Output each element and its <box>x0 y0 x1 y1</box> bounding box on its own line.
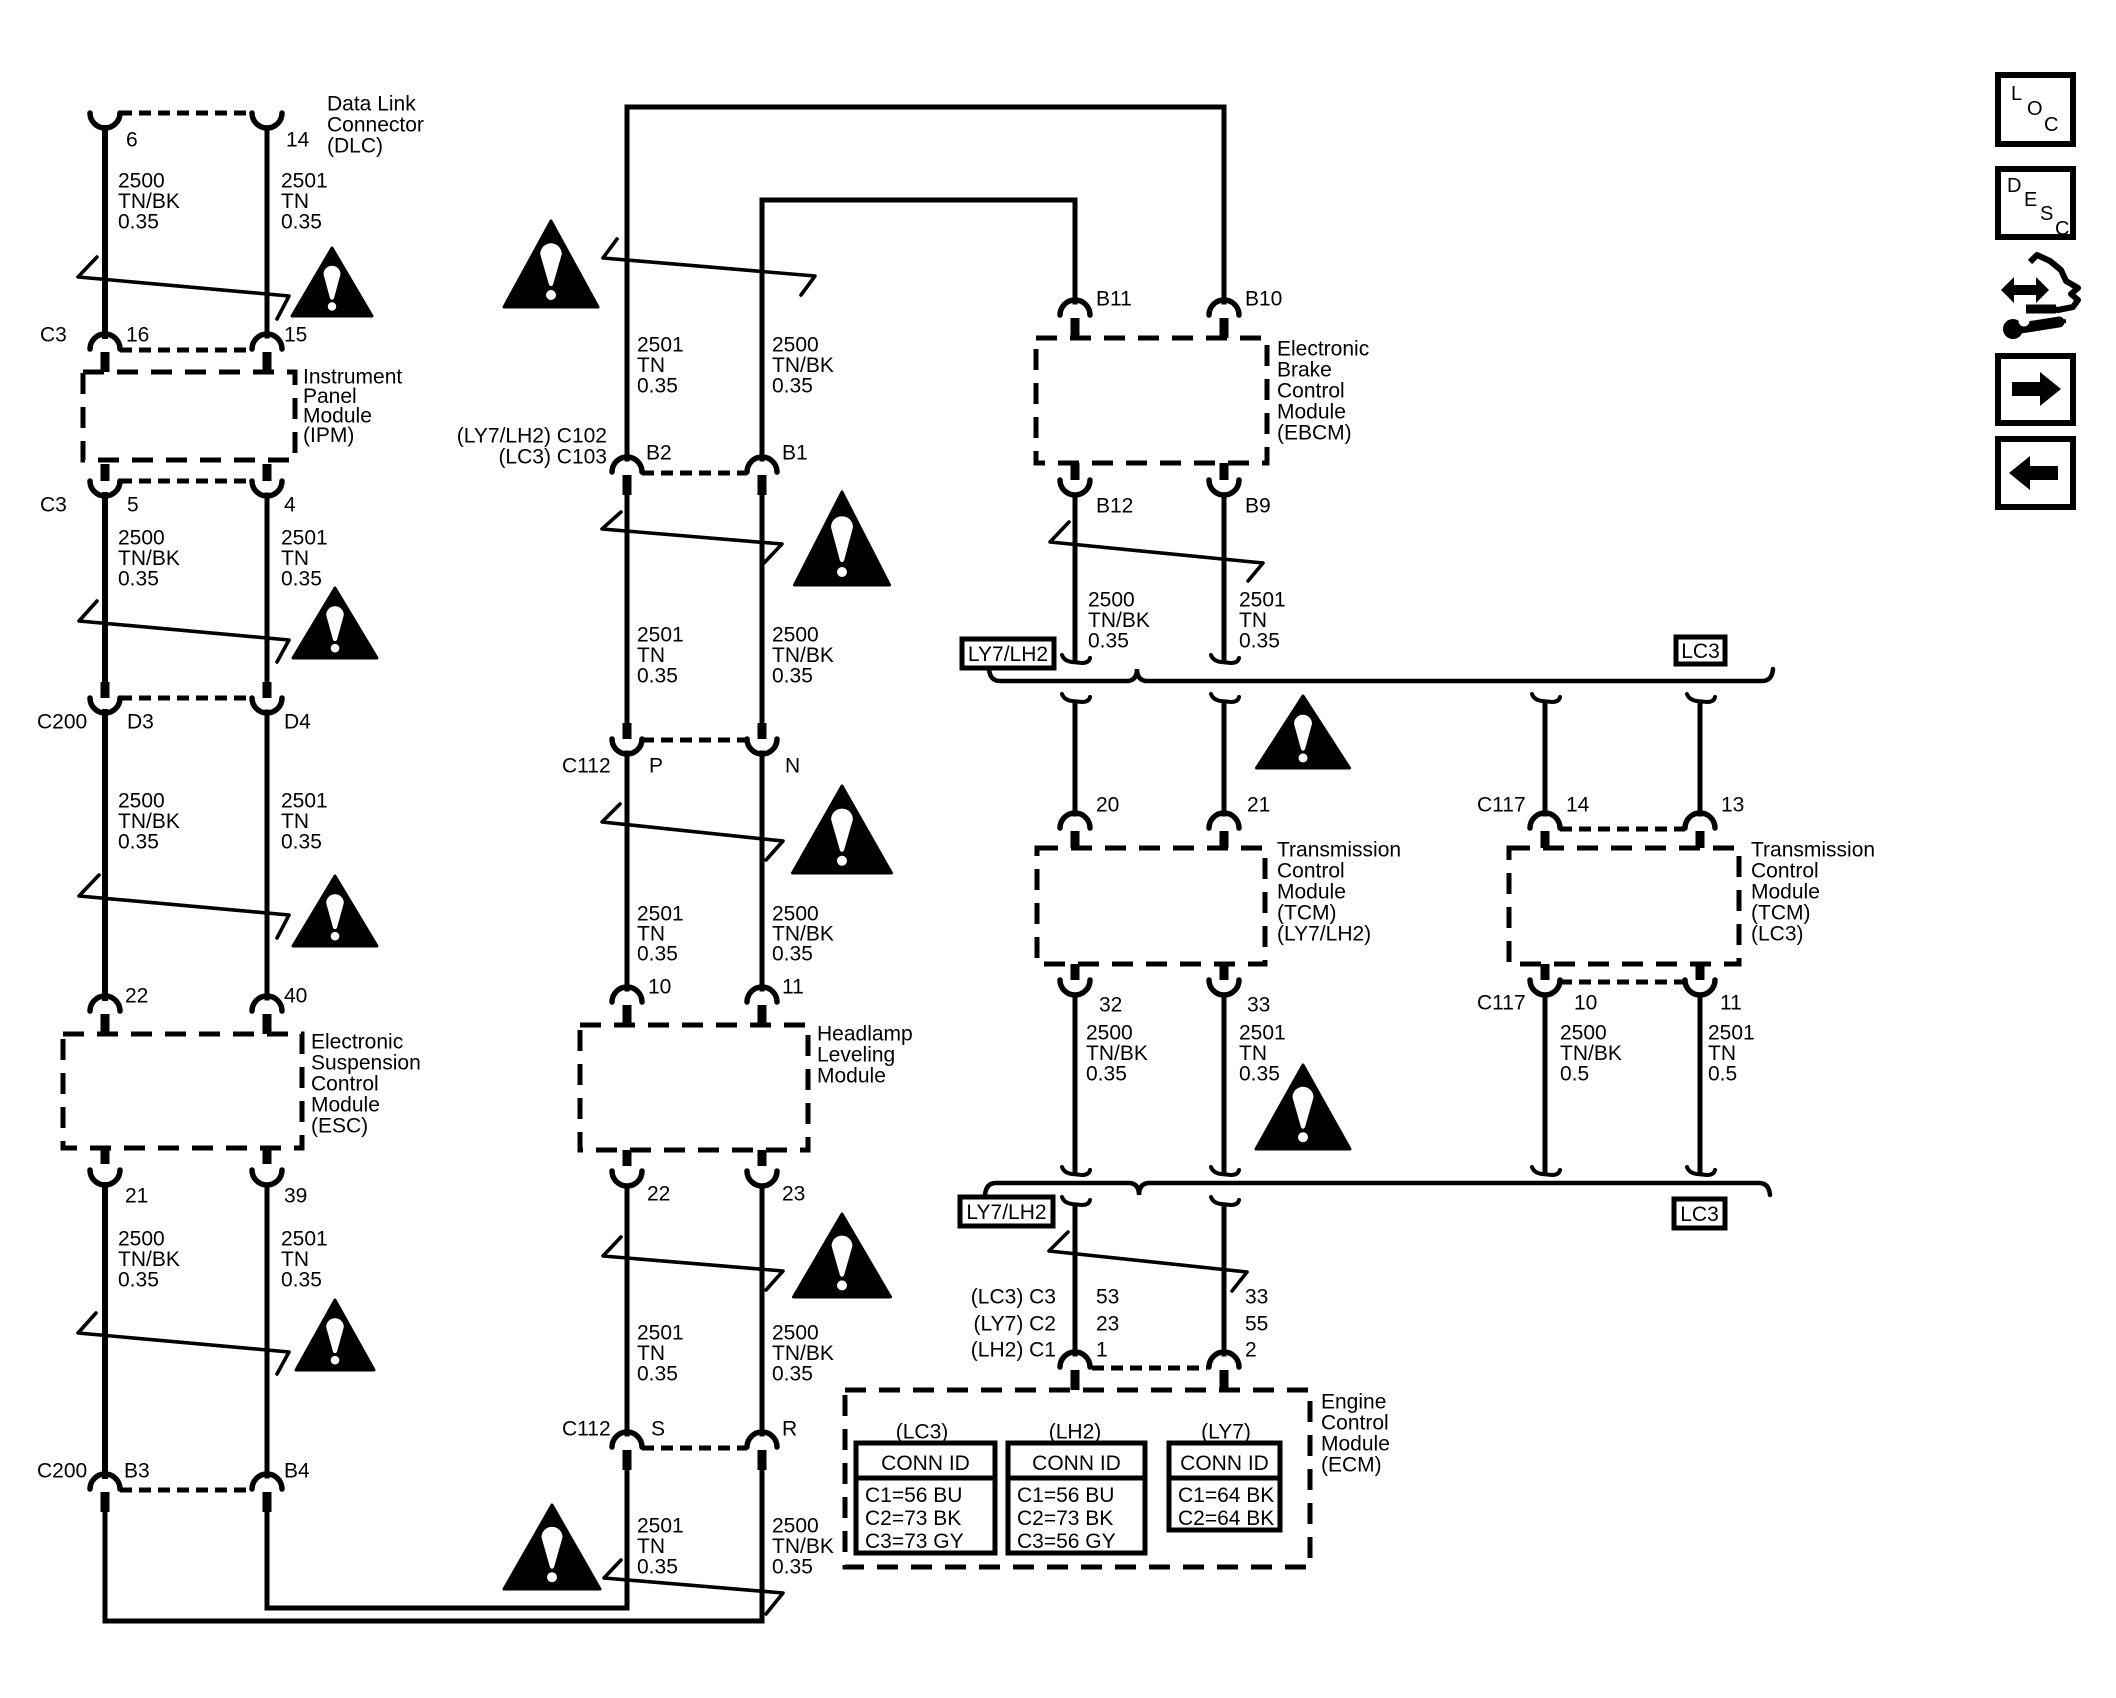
connector C102/C103 pin B1 terminal <box>747 457 777 472</box>
svg-text:S: S <box>651 1417 665 1440</box>
svg-text:C112: C112 <box>562 754 611 777</box>
wire 2501 TN 0.5 from C117 11 to lower bracket <box>1698 995 1703 1172</box>
wire 2500 TN/BK from DLC pin 6 to C3 pin 16 <box>102 128 108 336</box>
svg-text:2: 2 <box>1245 1338 1257 1361</box>
warning triangle (top riser pair) <box>504 221 598 307</box>
connector C200 pin B4 terminal <box>252 1474 282 1489</box>
svg-text:0.5: 0.5 <box>1708 1062 1737 1085</box>
svg-text:0.35: 0.35 <box>772 1555 813 1578</box>
svg-text:C3: C3 <box>40 323 67 346</box>
svg-text:0.35: 0.35 <box>772 374 813 397</box>
svg-text:Module: Module <box>311 1093 380 1116</box>
svg-text:C200: C200 <box>37 1459 87 1482</box>
wire: C117 lower connector dashed body pins 10-11 <box>1560 980 1685 985</box>
connector C112 pin P terminal <box>612 739 642 754</box>
wire end hook above upper bracket right <box>1211 655 1239 663</box>
svg-text:P: P <box>649 754 663 777</box>
svg-text:D: D <box>2007 175 2021 197</box>
svg-text:0.35: 0.35 <box>118 567 159 590</box>
pin bar Headlamp pin 11 <box>758 1005 767 1025</box>
svg-text:C3=73 GY: C3=73 GY <box>865 1530 964 1553</box>
svg-text:C117: C117 <box>1477 991 1526 1014</box>
warning triangle (TCM LY7/LH2 upper) <box>1257 696 1350 768</box>
svg-text:C2=73 BK: C2=73 BK <box>1017 1507 1113 1530</box>
icon left-arrow box <box>1998 439 2073 507</box>
wire 2500 TN/BK from C102 B1 to C112 N <box>760 495 765 725</box>
svg-text:0.35: 0.35 <box>637 1555 678 1578</box>
wire end hook above lower bracket at 32 <box>1062 1167 1090 1175</box>
svg-text:14: 14 <box>1566 793 1590 816</box>
svg-text:0.35: 0.35 <box>772 1362 813 1385</box>
wire twisted-pair marker (DLC-IPM) <box>78 257 289 319</box>
connector C117 pin 11 terminal <box>1685 980 1715 995</box>
pin bar ESC to pin 21 <box>101 1148 110 1164</box>
svg-text:C2=64 BK: C2=64 BK <box>1178 1507 1274 1530</box>
connector C117 pin 13 terminal <box>1685 813 1715 828</box>
svg-text:B4: B4 <box>284 1459 310 1482</box>
svg-text:C: C <box>2044 114 2058 136</box>
wire 2501 TN from EBCM B9 to LC3 bracket <box>1222 495 1227 660</box>
svg-text:22: 22 <box>647 1182 670 1205</box>
pin bar EBCM B11 <box>1071 318 1080 338</box>
svg-text:N: N <box>785 754 800 777</box>
pin bar ESC to pin 39 <box>263 1148 272 1164</box>
pin bar TCM pin 20 <box>1071 831 1080 848</box>
table CONN ID (LC3) <box>856 1443 995 1553</box>
icon LOC box <box>1998 75 2073 144</box>
connector TCM pin 20 terminal <box>1060 813 1090 828</box>
wire 2500 TN/BK riser from C102 B1 up and over to EBCM B11 <box>762 200 1075 459</box>
wire twisted-pair marker (EBCM pair) <box>1050 522 1263 581</box>
wire 2500 TN/BK from C3 pin 5 to C200 D3 <box>102 495 108 684</box>
svg-text:0.35: 0.35 <box>281 830 322 853</box>
svg-text:B10: B10 <box>1245 287 1282 310</box>
wire end hook above lower bracket at 33 <box>1211 1167 1239 1175</box>
stub hook below upper bracket at TCM 21 <box>1211 694 1239 702</box>
svg-text:0.35: 0.35 <box>1088 629 1129 652</box>
svg-text:C2=73 BK: C2=73 BK <box>865 1507 961 1530</box>
connector Headlamp pin 22 terminal <box>612 1171 642 1186</box>
svg-text:0.35: 0.35 <box>281 210 322 233</box>
svg-text:C: C <box>2055 218 2069 240</box>
svg-text:0.35: 0.35 <box>637 664 678 687</box>
warning triangle (ESC-C200 pair) <box>296 1300 374 1370</box>
svg-text:(LY7) C2: (LY7) C2 <box>974 1312 1056 1335</box>
wire 2501 TN from TCM 33 to lower bracket <box>1222 995 1227 1172</box>
connector C117 pin 10 terminal <box>1530 980 1560 995</box>
svg-text:C1=64 BK: C1=64 BK <box>1178 1484 1274 1507</box>
svg-text:Transmission: Transmission <box>1277 838 1401 861</box>
label box LY7/LH2 (lower bracket) <box>960 1197 1053 1226</box>
connector C3 pin 15 terminal <box>252 334 282 349</box>
connector ESC pin 40 terminal <box>252 996 282 1011</box>
svg-text:B12: B12 <box>1096 494 1133 517</box>
svg-text:16: 16 <box>126 323 149 346</box>
wire stub bracket to C117 pin 14 <box>1543 702 1548 814</box>
svg-text:LC3: LC3 <box>1680 1203 1719 1226</box>
svg-text:E: E <box>2024 189 2037 211</box>
wire stub bracket to TCM pin 20 <box>1073 702 1078 814</box>
connector EBCM pin B10 terminal <box>1209 300 1239 315</box>
connector C112 pin S terminal <box>612 1432 642 1447</box>
svg-text:CONN ID: CONN ID <box>1180 1452 1269 1475</box>
connector C3 pin 5 terminal <box>90 481 120 496</box>
svg-text:Control: Control <box>1277 859 1345 882</box>
wire: C200 connector dashed body pins D3-D4 <box>120 696 252 701</box>
svg-text:Leveling: Leveling <box>817 1043 895 1066</box>
icon DESC box <box>1998 169 2073 237</box>
svg-text:B9: B9 <box>1245 494 1271 517</box>
svg-text:0.35: 0.35 <box>118 1268 159 1291</box>
wire 2500 TN/BK from ESC 21 to C200 B3 <box>102 1185 108 1476</box>
icon double-arrow with wrench <box>2001 277 2049 303</box>
svg-text:10: 10 <box>1574 991 1597 1014</box>
svg-text:C200: C200 <box>37 710 87 733</box>
svg-text:C3: C3 <box>40 493 67 516</box>
connector Headlamp pin 23 terminal <box>747 1171 777 1186</box>
connector EBCM pin B11 terminal <box>1060 300 1090 315</box>
svg-text:Engine: Engine <box>1321 1390 1386 1413</box>
wire: C3 lower connector dashed body pins 5-4 <box>120 479 252 484</box>
pin bar C117 pin 13 <box>1696 831 1705 848</box>
svg-text:B1: B1 <box>782 441 808 464</box>
pin bar below C102 B2 <box>623 475 632 495</box>
pin bar ESC pin 40 <box>263 1014 272 1034</box>
connector Headlamp pin 10 terminal <box>612 987 642 1002</box>
pin bar ECM right <box>1220 1370 1229 1390</box>
svg-text:15: 15 <box>284 323 307 346</box>
svg-text:C1=56 BU: C1=56 BU <box>865 1484 962 1507</box>
svg-text:23: 23 <box>1096 1312 1119 1335</box>
wire 2501 TN from C102 B2 to C112 P <box>625 495 630 725</box>
wire end hook above upper bracket left <box>1062 655 1090 663</box>
wire twisted-pair marker (C102-C112) <box>602 512 782 563</box>
connector C102/C103 pin B2 terminal <box>612 457 642 472</box>
wire twisted-pair marker (bottom route pair) <box>604 1560 783 1614</box>
connector C200 pin B3 terminal <box>90 1474 120 1489</box>
svg-text:C1=56 BU: C1=56 BU <box>1017 1484 1114 1507</box>
svg-text:Data Link: Data Link <box>327 92 416 115</box>
stub hook below upper bracket at C117 14 <box>1532 694 1560 702</box>
svg-text:LY7/LH2: LY7/LH2 <box>966 1201 1046 1224</box>
module box Instrument Panel Module (IPM) <box>83 372 295 460</box>
svg-text:(TCM): (TCM) <box>1751 901 1810 924</box>
svg-text:0.35: 0.35 <box>637 374 678 397</box>
svg-text:4: 4 <box>284 493 296 516</box>
pin bar below C200 B3 <box>101 1492 110 1512</box>
svg-text:Control: Control <box>311 1072 379 1095</box>
svg-text:(LY7): (LY7) <box>1201 1420 1251 1443</box>
wire: DLC connector dashed body between pin 6 and pin 14 <box>120 111 252 116</box>
pin bar into C200 D4 <box>263 682 272 698</box>
stub hook below lower bracket at ECM left <box>1062 1197 1090 1205</box>
pin bar ECM left <box>1071 1370 1080 1390</box>
svg-text:(DLC): (DLC) <box>327 134 383 157</box>
wire 2500 TN/BK from C200 B3 to C112 R (bottom route) <box>105 1468 762 1621</box>
svg-text:Brake: Brake <box>1277 358 1332 381</box>
wire 2500 TN/BK 0.5 from C117 10 to lower bracket <box>1543 995 1548 1172</box>
module box Engine Control Module (ECM) <box>845 1390 1310 1567</box>
pin bar TCM to C117 10 <box>1541 964 1550 980</box>
svg-text:23: 23 <box>782 1182 805 1205</box>
svg-text:Module: Module <box>1277 400 1346 423</box>
wire end hook above lower bracket at C117 10 <box>1532 1167 1560 1175</box>
svg-text:D3: D3 <box>127 710 154 733</box>
wire 2501 TN from C200 B4 to C112 S (bottom route) <box>267 1468 627 1608</box>
wire option bracket (upper bus) <box>989 669 1773 681</box>
svg-text:40: 40 <box>284 984 307 1007</box>
svg-text:33: 33 <box>1247 993 1270 1016</box>
pin bar IPM to C3-5 <box>101 464 110 481</box>
wire 2501 TN from DLC pin 14 to C3 pin 15 <box>265 128 270 336</box>
wire 2501 TN riser from C102 B2 up and over to EBCM B10 <box>627 107 1224 459</box>
svg-text:1: 1 <box>1096 1338 1108 1361</box>
svg-text:Control: Control <box>1321 1411 1389 1434</box>
svg-text:53: 53 <box>1096 1285 1119 1308</box>
svg-text:(TCM): (TCM) <box>1277 901 1336 924</box>
svg-text:(LC3): (LC3) <box>1751 922 1804 945</box>
connector C112 pin N terminal <box>747 739 777 754</box>
pin bar TCM to pin 32 <box>1071 964 1080 980</box>
svg-text:21: 21 <box>125 1184 148 1207</box>
module box Electronic Brake Control Module (EBCM) <box>1036 338 1267 463</box>
svg-text:Module: Module <box>1277 880 1346 903</box>
connector C200 pin D4 terminal <box>252 698 282 713</box>
warning triangle (C200-ESC pair) <box>293 876 377 946</box>
warning triangle (C102-C112 pair) <box>795 492 890 585</box>
wire stub bracket to TCM pin 21 <box>1222 702 1227 814</box>
svg-text:O: O <box>2027 98 2043 120</box>
svg-text:L: L <box>2011 83 2022 105</box>
connector DLC pin 14 terminal <box>252 113 282 128</box>
pin bar into C112 N <box>758 723 767 739</box>
pin bar TCM to C117 11 <box>1696 964 1705 980</box>
connector C112 pin R terminal <box>747 1432 777 1447</box>
svg-text:20: 20 <box>1096 793 1119 816</box>
pin bar below C102 B1 <box>758 475 767 495</box>
svg-text:5: 5 <box>127 493 139 516</box>
wire stub bracket to C117 pin 13 <box>1698 702 1703 814</box>
svg-text:Electronic: Electronic <box>311 1030 403 1053</box>
wire: C112 lower connector dashed body pins S-R <box>642 1446 747 1451</box>
svg-text:14: 14 <box>286 128 310 151</box>
svg-text:CONN ID: CONN ID <box>1032 1452 1121 1475</box>
wire: C102/C103 connector dashed body pins B2-B1 <box>642 471 747 476</box>
warning triangle (Headlamp-C112 pair) <box>794 1214 891 1297</box>
wire twisted-pair marker (ECM pair) <box>1049 1232 1247 1291</box>
svg-text:55: 55 <box>1245 1312 1268 1335</box>
svg-text:11: 11 <box>782 975 804 998</box>
svg-text:Control: Control <box>1277 379 1345 402</box>
pin bar TCM pin 21 <box>1220 831 1229 848</box>
svg-text:R: R <box>782 1417 797 1440</box>
svg-text:Connector: Connector <box>327 113 424 136</box>
connector EBCM pin B9 terminal <box>1209 480 1239 495</box>
pin bar EBCM B10 <box>1220 318 1229 338</box>
pin bar EBCM to B9 <box>1220 463 1229 480</box>
label box LC3 (lower bracket) <box>1674 1199 1725 1228</box>
module box Headlamp Leveling Module <box>580 1025 808 1150</box>
wire 2501 TN from ESC 39 to C200 B4 <box>265 1185 270 1476</box>
warning triangle (TCM lower pair) <box>1256 1065 1350 1149</box>
connector C200 pin D3 terminal <box>90 698 120 713</box>
label box LY7/LH2 (upper bracket) <box>962 639 1054 668</box>
wire end hook above lower bracket at C117 11 <box>1687 1167 1715 1175</box>
pin bar into C200 D3 <box>101 682 110 698</box>
svg-text:Module: Module <box>1751 880 1820 903</box>
svg-text:0.35: 0.35 <box>637 1362 678 1385</box>
wire twisted-pair marker (ESC-C200) <box>78 1313 289 1374</box>
pin bar C3-16 into IPM <box>101 352 110 372</box>
warning triangle (bottom route pair) <box>504 1505 600 1589</box>
svg-text:0.35: 0.35 <box>281 567 322 590</box>
connector ESC pin 39 terminal <box>252 1170 282 1185</box>
svg-text:LC3: LC3 <box>1681 640 1720 663</box>
svg-text:13: 13 <box>1721 793 1744 816</box>
wire 2500 TN/BK from pin 23 to C112 R <box>760 1186 765 1434</box>
wire twisted-pair marker (IPM-C200) <box>79 601 289 662</box>
stub hook below upper bracket at C117 13 <box>1687 694 1715 702</box>
table CONN ID (LY7) <box>1169 1443 1280 1530</box>
svg-text:Module: Module <box>817 1064 886 1087</box>
svg-text:(ESC): (ESC) <box>311 1114 368 1137</box>
warning triangle (C112-Headlamp pair) <box>793 786 892 873</box>
stub hook below lower bracket at ECM right <box>1211 1197 1239 1205</box>
wire option bracket (lower bus) <box>985 1183 1770 1195</box>
wire 2500 TN/BK from C200 D3 to ESC pin 22 <box>102 712 108 998</box>
svg-text:(LH2) C1: (LH2) C1 <box>971 1338 1056 1361</box>
pin bar below C200 B4 <box>263 1492 272 1512</box>
wire: C3 connector dashed body between pins 16 and 15 <box>120 348 252 353</box>
pin bar Headlamp to pin 22 <box>623 1150 632 1166</box>
connector TCM pin 32 terminal <box>1060 980 1090 995</box>
wire 2501 TN from C3 pin 4 to C200 D4 <box>265 495 270 684</box>
svg-text:0.35: 0.35 <box>772 664 813 687</box>
module box Electronic Suspension Control Module (ESC) <box>63 1034 302 1148</box>
svg-text:Module: Module <box>1321 1432 1390 1455</box>
svg-text:LY7/LH2: LY7/LH2 <box>968 643 1048 666</box>
svg-text:0.5: 0.5 <box>1560 1062 1589 1085</box>
svg-text:CONN ID: CONN ID <box>881 1452 970 1475</box>
connector ECM left pin terminal <box>1060 1352 1090 1367</box>
svg-text:32: 32 <box>1099 993 1122 1016</box>
wire 2501 TN from C200 D4 to ESC pin 40 <box>265 712 270 998</box>
connector C3 pin 16 terminal <box>90 334 120 349</box>
svg-text:Suspension: Suspension <box>311 1051 421 1074</box>
connector TCM pin 33 terminal <box>1209 980 1239 995</box>
wire 2501 TN from bracket to ECM pin <box>1222 1205 1227 1354</box>
connector Headlamp pin 11 terminal <box>747 987 777 1002</box>
svg-text:33: 33 <box>1245 1285 1268 1308</box>
svg-text:6: 6 <box>126 128 138 151</box>
svg-text:Headlamp: Headlamp <box>817 1022 913 1045</box>
wire 2500 TN/BK from bracket to ECM pin <box>1073 1205 1078 1354</box>
stub hook below upper bracket at TCM 20 <box>1062 694 1090 702</box>
connector ESC pin 22 terminal <box>90 996 120 1011</box>
wire twisted-pair marker (C200-ESC) <box>79 875 289 938</box>
wire: ECM connector dashed body <box>1092 1366 1207 1371</box>
pin bar below C112 S <box>623 1450 632 1470</box>
svg-text:(EBCM): (EBCM) <box>1277 421 1352 444</box>
svg-text:10: 10 <box>648 975 671 998</box>
svg-text:D4: D4 <box>284 710 311 733</box>
svg-text:22: 22 <box>125 984 148 1007</box>
connector C117 pin 14 terminal <box>1530 813 1560 828</box>
wire twisted-pair marker (top riser pair) <box>603 239 815 295</box>
svg-text:(ECM): (ECM) <box>1321 1453 1382 1476</box>
connector ECM right pin terminal <box>1209 1352 1239 1367</box>
wire 2501 TN from pin 22 to C112 S <box>625 1186 630 1434</box>
wire: C117 connector dashed body pins 14-13 <box>1560 827 1685 832</box>
svg-text:Electronic: Electronic <box>1277 337 1369 360</box>
svg-text:0.35: 0.35 <box>118 210 159 233</box>
wire 2500 TN/BK from C112 N to Headlamp pin 11 <box>760 753 765 989</box>
svg-text:(LH2): (LH2) <box>1049 1420 1102 1443</box>
svg-text:21: 21 <box>1247 793 1270 816</box>
pin bar ESC pin 22 <box>101 1014 110 1034</box>
pin bar Headlamp to pin 23 <box>758 1150 767 1166</box>
svg-text:(LY7/LH2) C102: (LY7/LH2) C102 <box>457 424 607 447</box>
pin bar EBCM to B12 <box>1071 463 1080 480</box>
svg-text:(LC3) C3: (LC3) C3 <box>971 1285 1056 1308</box>
connector C3 pin 4 terminal <box>252 481 282 496</box>
svg-text:0.35: 0.35 <box>1239 1062 1280 1085</box>
wire 2500 TN/BK from TCM 32 to lower bracket <box>1073 995 1078 1172</box>
svg-text:0.35: 0.35 <box>772 942 813 965</box>
svg-text:0.35: 0.35 <box>1239 629 1280 652</box>
wire 2501 TN from C112 P to Headlamp pin 10 <box>625 753 630 989</box>
svg-text:11: 11 <box>1720 991 1742 1014</box>
table CONN ID (LH2) <box>1008 1443 1145 1553</box>
warning triangle (IPM-C200 pair) <box>293 588 377 658</box>
connector EBCM pin B12 terminal <box>1060 480 1090 495</box>
svg-text:0.35: 0.35 <box>637 942 678 965</box>
svg-text:Control: Control <box>1751 859 1819 882</box>
label box LC3 (upper bracket) <box>1676 637 1725 664</box>
svg-text:(LY7/LH2): (LY7/LH2) <box>1277 922 1371 945</box>
svg-text:0.35: 0.35 <box>281 1268 322 1291</box>
pin bar TCM to pin 33 <box>1220 964 1229 980</box>
svg-text:39: 39 <box>284 1184 307 1207</box>
pin bar C3-15 into IPM <box>263 352 272 372</box>
connector ESC pin 21 terminal <box>90 1170 120 1185</box>
svg-text:(LC3): (LC3) <box>896 1420 949 1443</box>
svg-text:0.35: 0.35 <box>118 830 159 853</box>
pin bar Headlamp pin 10 <box>623 1005 632 1025</box>
warning triangle (DLC-IPM pair) <box>292 248 372 316</box>
svg-text:S: S <box>2040 203 2053 225</box>
pin bar IPM to C3-4 <box>263 464 272 481</box>
svg-text:(IPM): (IPM) <box>303 424 354 447</box>
icon right-arrow box <box>1998 356 2073 423</box>
svg-text:C117: C117 <box>1477 793 1526 816</box>
wire 2500 TN/BK from EBCM B12 to LY7/LH2 bracket <box>1073 495 1078 660</box>
svg-text:B3: B3 <box>124 1459 150 1482</box>
svg-text:C3=56 GY: C3=56 GY <box>1017 1530 1116 1553</box>
svg-text:Transmission: Transmission <box>1751 838 1875 861</box>
wire: C112 connector dashed body pins P-N <box>642 738 747 743</box>
wire twisted-pair marker (Headlamp-C112) <box>603 1237 783 1290</box>
wire twisted-pair marker (C112-Headlamp) <box>602 804 783 860</box>
svg-text:B11: B11 <box>1096 287 1132 310</box>
module box Transmission Control Module (TCM) (LY7/LH2) <box>1037 848 1265 964</box>
pin bar into C112 P <box>623 723 632 739</box>
connector DLC pin 6 terminal <box>90 113 120 128</box>
wire: C200 lower connector dashed body pins B3-B4 <box>120 1488 252 1493</box>
pin bar C117 pin 14 <box>1541 831 1550 848</box>
svg-text:0.35: 0.35 <box>1086 1062 1127 1085</box>
svg-text:C112: C112 <box>562 1417 611 1440</box>
